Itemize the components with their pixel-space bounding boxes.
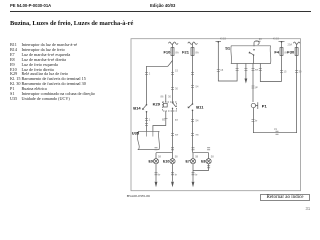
svg-text:B11: B11 xyxy=(196,105,204,110)
svg-text:8A: 8A xyxy=(285,51,288,55)
svg-text:86: 86 xyxy=(161,95,164,99)
svg-text:br: br xyxy=(175,172,177,176)
svg-text:E8: E8 xyxy=(201,160,205,164)
svg-text:8A: 8A xyxy=(196,51,199,55)
svg-text:S1: S1 xyxy=(225,46,231,51)
svg-text:sw: sw xyxy=(196,134,199,137)
svg-text:E9: E9 xyxy=(148,160,152,164)
svg-text:P1: P1 xyxy=(262,103,268,108)
svg-text:sw: sw xyxy=(255,69,258,72)
svg-text:58: 58 xyxy=(175,154,178,158)
svg-text:E7: E7 xyxy=(185,160,189,164)
svg-text:85: 85 xyxy=(162,118,165,122)
svg-text:30: 30 xyxy=(168,95,171,99)
svg-text:31: 31 xyxy=(274,127,277,131)
svg-text:54: 54 xyxy=(196,119,199,123)
svg-text:br: br xyxy=(255,119,257,123)
svg-text:F10: F10 xyxy=(163,49,171,54)
svg-text:F30: F30 xyxy=(287,49,295,54)
svg-text:30: 30 xyxy=(299,70,302,74)
svg-text:Kl.15: Kl.15 xyxy=(220,37,226,41)
svg-text:58: 58 xyxy=(211,154,214,158)
svg-text:30: 30 xyxy=(175,87,178,91)
svg-text:15: 15 xyxy=(284,70,287,74)
svg-text:K29: K29 xyxy=(153,102,161,107)
svg-text:br: br xyxy=(195,172,197,176)
svg-text:F4: F4 xyxy=(274,49,279,54)
svg-text:58: 58 xyxy=(195,154,198,158)
svg-text:U35: U35 xyxy=(132,131,140,136)
svg-text:25A: 25A xyxy=(288,43,293,47)
svg-text:15: 15 xyxy=(175,69,178,73)
svg-text:Kl.15: Kl.15 xyxy=(273,37,279,41)
svg-text:2: 2 xyxy=(149,72,151,76)
svg-text:58: 58 xyxy=(158,154,161,158)
svg-text:br: br xyxy=(158,172,160,176)
svg-text:B14: B14 xyxy=(133,105,141,110)
svg-text:87: 87 xyxy=(175,118,178,122)
svg-text:8A: 8A xyxy=(176,51,179,55)
svg-text:gn: gn xyxy=(255,86,258,89)
svg-text:sw: sw xyxy=(175,134,178,137)
svg-text:54: 54 xyxy=(196,85,199,89)
svg-text:1: 1 xyxy=(149,118,151,122)
svg-text:15: 15 xyxy=(220,68,223,72)
svg-text:F21: F21 xyxy=(182,49,190,54)
svg-text:E10: E10 xyxy=(163,160,169,164)
